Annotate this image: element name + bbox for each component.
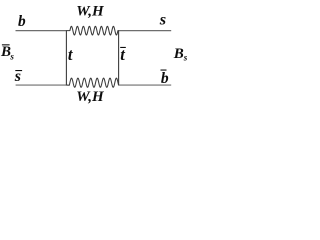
- wire: external s-quark line top-right: [119, 30, 172, 32]
- svg-text:b: b: [18, 13, 26, 30]
- wire: external s-bar-quark line bottom-left: [16, 84, 67, 86]
- wire: external b-bar-quark line bottom-right: [119, 84, 172, 86]
- svg-text:W,H: W,H: [76, 89, 105, 105]
- svg-text:B: B: [173, 46, 184, 62]
- svg-text:W,H: W,H: [76, 4, 105, 20]
- svg-text:s: s: [9, 52, 14, 62]
- wire: internal t-quark propagator (left vertical): [65, 30, 67, 85]
- wire: internal t-bar-quark propagator (right vertical): [118, 30, 120, 85]
- wire: W,H boson wavy propagator (bottom): [66, 78, 118, 87]
- svg-text:s: s: [159, 10, 166, 29]
- svg-text:s: s: [183, 52, 188, 62]
- svg-text:b: b: [161, 70, 169, 87]
- svg-text:B: B: [0, 44, 11, 60]
- wire: W,H boson wavy propagator (top): [66, 26, 118, 35]
- svg-text:t: t: [68, 45, 73, 64]
- wire: external b-quark line top-left: [16, 30, 67, 32]
